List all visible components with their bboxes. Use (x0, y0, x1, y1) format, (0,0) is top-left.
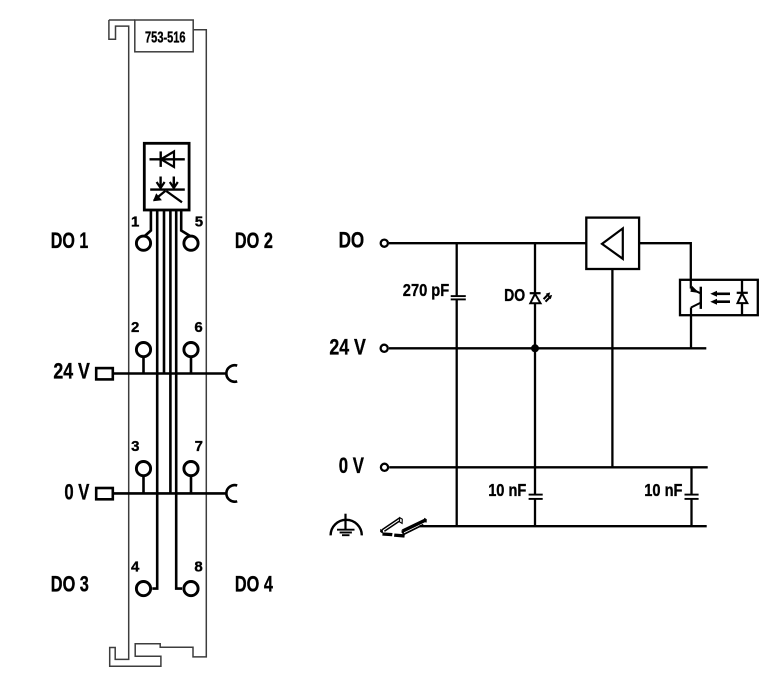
24V wire (389, 347, 706, 349)
svg-text:24 V: 24 V (53, 359, 90, 384)
capacitor 270 pF lower wire (456, 299, 458, 526)
LED indicator box (144, 143, 189, 210)
svg-text:8: 8 (194, 559, 202, 576)
svg-text:10 nF: 10 nF (488, 480, 526, 500)
DIN rail clamp icon (380, 518, 427, 538)
optocoupler box (680, 280, 758, 315)
svg-text:DO 4: DO 4 (235, 571, 274, 596)
contact 7 (184, 462, 198, 476)
wire to 0V rail (169, 210, 172, 493)
optocoupler phototransistor (690, 280, 700, 315)
optocoupler light arrows (710, 291, 730, 305)
ground symbol (331, 514, 362, 536)
svg-text:10 nF: 10 nF (644, 480, 682, 500)
optocoupler emitter wire to 24V (690, 315, 692, 348)
capacitor 270 pF branch upper wire (456, 243, 458, 296)
capacitor 10nF right wires (690, 467, 692, 494)
LED DO symbol (530, 292, 552, 303)
capacitor 270 pF plates (451, 295, 466, 297)
capacitor 10nF right plates (685, 495, 699, 499)
DO wire after amp (639, 243, 691, 280)
wire to 24V rail (163, 210, 166, 374)
contact 6 (184, 343, 198, 357)
DO wire (389, 242, 586, 244)
svg-text:24 V: 24 V (329, 334, 366, 359)
svg-text:2: 2 (131, 319, 139, 336)
svg-text:0 V: 0 V (339, 453, 364, 478)
contact 5 (184, 236, 198, 250)
svg-text:DO 2: DO 2 (235, 228, 273, 253)
svg-text:1: 1 (131, 214, 139, 231)
amplifier output wire (611, 269, 613, 467)
svg-text:7: 7 (195, 438, 203, 455)
LED DO branch wire (534, 243, 536, 467)
wire pin 1 (145, 210, 151, 236)
junction dot 24V/LED (531, 344, 539, 352)
svg-text:6: 6 (194, 319, 202, 336)
svg-text:DO 3: DO 3 (51, 571, 89, 596)
svg-text:753-516: 753-516 (145, 29, 186, 46)
contact 1 (136, 236, 150, 250)
module 753-516 outline (109, 20, 206, 666)
svg-text:DO 1: DO 1 (51, 228, 89, 253)
wire DO3 to contact 4 (152, 210, 157, 589)
svg-text:4: 4 (131, 559, 140, 576)
diode D1 in LED box (150, 151, 185, 167)
contact 8 (184, 582, 198, 596)
24V power jumper rail (96, 365, 237, 382)
stem contact 6 (190, 358, 193, 374)
svg-text:5: 5 (195, 214, 203, 231)
wire DO4 to contact 8 (176, 210, 182, 589)
capacitor 10nF left wires (534, 467, 536, 494)
terminal 24V (381, 345, 388, 352)
stem contact 2 (142, 358, 145, 374)
0V power jumper rail (96, 485, 237, 502)
capacitor 10nF left plates (529, 495, 543, 499)
amplifier box (586, 218, 639, 269)
svg-text:DO: DO (339, 228, 365, 253)
svg-text:270 pF: 270 pF (403, 280, 450, 300)
stem contact 7 (190, 477, 193, 494)
0V wire (389, 466, 708, 468)
earth line (420, 525, 707, 527)
optocoupler LED diode (737, 280, 748, 315)
terminal 0V (381, 464, 388, 471)
svg-text:DO: DO (504, 285, 525, 305)
wire pin 5 (181, 210, 190, 236)
contact 2 (136, 343, 150, 357)
contact 3 (136, 462, 150, 476)
terminal DO (381, 240, 388, 247)
svg-text:0 V: 0 V (64, 479, 89, 504)
stem contact 3 (142, 477, 145, 494)
LED D2 in LED box (150, 177, 185, 203)
svg-text:3: 3 (131, 438, 139, 455)
amplifier triangle (602, 228, 623, 258)
contact 4 (136, 582, 150, 596)
label box 753-516 (135, 20, 193, 52)
